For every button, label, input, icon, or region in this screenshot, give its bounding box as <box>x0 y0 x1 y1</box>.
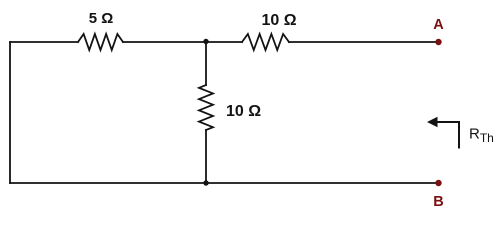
wire top-right segment to terminal A <box>289 41 439 43</box>
svg-text:B: B <box>433 194 443 210</box>
arrow RTh direction indicator <box>435 122 459 149</box>
wire top-left segment <box>10 41 78 43</box>
node junction top <box>203 39 208 44</box>
svg-text:10 Ω: 10 Ω <box>226 103 261 120</box>
svg-text:10 Ω: 10 Ω <box>261 12 296 29</box>
resistor R3 10 ohm vertical zigzag <box>199 85 213 130</box>
svg-text:5 Ω: 5 Ω <box>89 10 114 27</box>
resistor R1 5 ohm zigzag <box>78 34 123 50</box>
wire bottom <box>10 182 439 184</box>
wire middle vertical lower <box>205 130 207 183</box>
svg-text:A: A <box>433 17 444 33</box>
wire middle vertical upper <box>205 42 207 85</box>
wire left side vertical <box>9 42 11 183</box>
node junction bottom <box>203 180 208 185</box>
terminal B dot <box>435 180 441 186</box>
terminal A dot <box>435 39 441 45</box>
wire top middle segment <box>123 41 242 43</box>
arrowhead <box>427 117 438 127</box>
resistor R2 10 ohm zigzag <box>242 34 289 50</box>
svg-text:RTh: RTh <box>469 126 494 146</box>
